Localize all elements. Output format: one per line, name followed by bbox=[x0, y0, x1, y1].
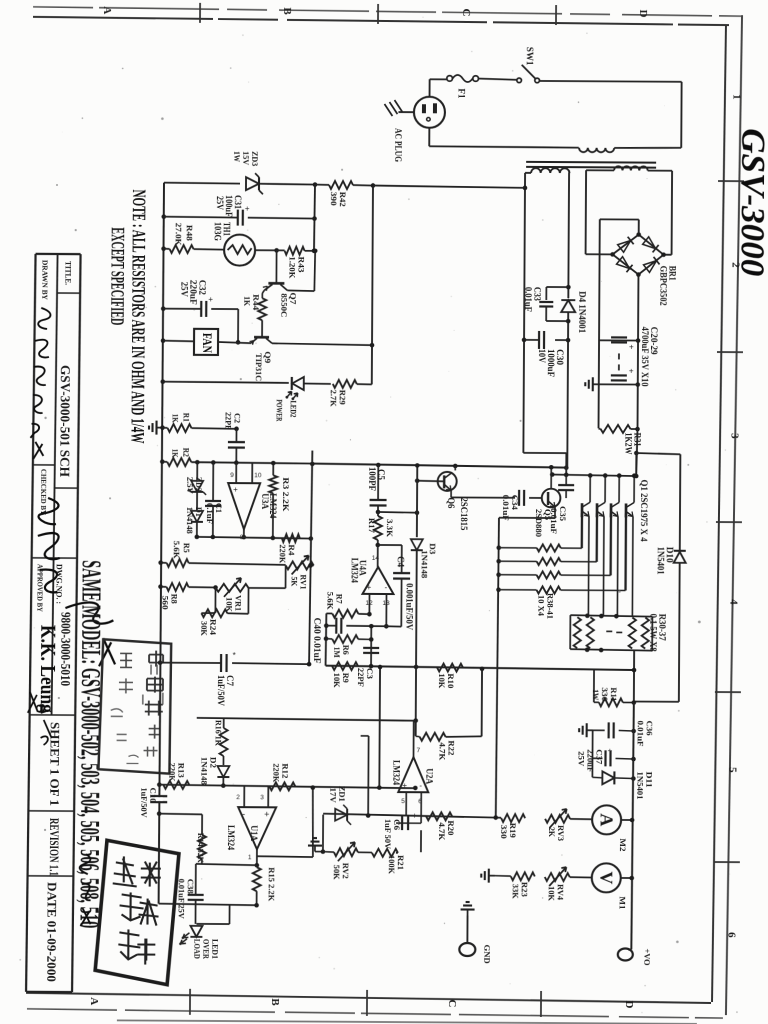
svg-text:1uF/50V: 1uF/50V bbox=[216, 675, 226, 707]
svg-text:17V: 17V bbox=[328, 788, 338, 804]
svg-text:2SC1815: 2SC1815 bbox=[459, 497, 469, 531]
svg-text:A: A bbox=[597, 813, 617, 826]
svg-text:R3 2.2K: R3 2.2K bbox=[281, 477, 291, 512]
svg-text:103G: 103G bbox=[213, 222, 223, 241]
svg-text:0.1uF: 0.1uF bbox=[205, 503, 215, 524]
svg-text:1N5401: 1N5401 bbox=[656, 547, 666, 576]
svg-text:DRAWN BY: DRAWN BY bbox=[40, 260, 49, 301]
svg-text:APPROVED BY: APPROVED BY bbox=[35, 564, 44, 613]
svg-text:B: B bbox=[269, 998, 281, 1006]
svg-text:U1A: U1A bbox=[249, 825, 259, 842]
svg-text:M1: M1 bbox=[618, 896, 628, 909]
svg-text:1M: 1M bbox=[332, 647, 342, 658]
svg-text:2.5V: 2.5V bbox=[185, 477, 195, 495]
svg-text:3: 3 bbox=[260, 794, 264, 801]
svg-text:5.6K: 5.6K bbox=[325, 592, 335, 610]
svg-text:100K: 100K bbox=[387, 855, 397, 874]
svg-text:REVISION 1.1: REVISION 1.1 bbox=[47, 818, 61, 876]
svg-text:2.7K: 2.7K bbox=[329, 390, 339, 407]
svg-text:6: 6 bbox=[725, 932, 737, 938]
svg-text:M2: M2 bbox=[618, 838, 628, 851]
svg-text:LED2: LED2 bbox=[289, 400, 299, 417]
svg-text:NOTE : ALL RESISTORS ARE IN OH: NOTE : ALL RESISTORS ARE IN OHM AND 1/4W bbox=[126, 189, 149, 443]
svg-text:5: 5 bbox=[726, 767, 738, 773]
svg-text:R5: R5 bbox=[182, 543, 192, 553]
svg-text:R16 1K: R16 1K bbox=[214, 720, 224, 746]
svg-text:C: C bbox=[446, 999, 458, 1007]
svg-text:GBPC3502: GBPC3502 bbox=[658, 266, 668, 307]
svg-text:1N4148: 1N4148 bbox=[185, 507, 195, 534]
svg-text:220K: 220K bbox=[167, 763, 177, 782]
svg-text:25V: 25V bbox=[576, 751, 586, 767]
svg-text:3: 3 bbox=[728, 433, 740, 439]
svg-text:EXCEPT SPECIFIED: EXCEPT SPECIFIED bbox=[106, 227, 128, 325]
svg-text:2K: 2K bbox=[547, 827, 557, 837]
svg-text:B: B bbox=[281, 7, 293, 15]
svg-text:R15 2.2K: R15 2.2K bbox=[267, 867, 277, 901]
svg-text:5: 5 bbox=[401, 798, 405, 805]
svg-text:8550C: 8550C bbox=[279, 293, 289, 317]
svg-text:33K: 33K bbox=[511, 884, 521, 899]
svg-text:+: + bbox=[402, 781, 407, 790]
svg-text:1K: 1K bbox=[170, 449, 180, 458]
svg-text:1W: 1W bbox=[232, 151, 242, 162]
svg-text:-: - bbox=[419, 781, 422, 790]
svg-text:CHECKED BY: CHECKED BY bbox=[39, 469, 48, 516]
svg-text:+: + bbox=[245, 204, 250, 213]
svg-text:4.7K: 4.7K bbox=[437, 822, 447, 840]
svg-text:+: + bbox=[608, 746, 613, 755]
svg-text:220K: 220K bbox=[271, 763, 281, 782]
svg-text:1.20K: 1.20K bbox=[287, 256, 297, 278]
svg-text:4: 4 bbox=[727, 599, 739, 605]
svg-text:100PF: 100PF bbox=[367, 467, 377, 492]
svg-text:1: 1 bbox=[248, 854, 252, 861]
svg-text:1N4148: 1N4148 bbox=[420, 550, 430, 578]
svg-text:0.1 5W X8: 0.1 5W X8 bbox=[648, 614, 658, 653]
svg-text:LM324: LM324 bbox=[226, 825, 236, 851]
svg-text:A: A bbox=[101, 6, 113, 14]
svg-text:10 X4: 10 X4 bbox=[536, 595, 546, 617]
svg-text:9: 9 bbox=[230, 472, 234, 479]
svg-text:5K: 5K bbox=[290, 576, 300, 586]
svg-text:1K: 1K bbox=[171, 414, 181, 423]
svg-text:POWER: POWER bbox=[275, 399, 285, 422]
svg-text:22PF: 22PF bbox=[223, 412, 233, 430]
svg-text:D4 1N4001: D4 1N4001 bbox=[576, 291, 586, 333]
svg-text:LM324: LM324 bbox=[391, 760, 401, 786]
svg-text:1N5401: 1N5401 bbox=[635, 772, 645, 800]
svg-text:2: 2 bbox=[236, 794, 240, 801]
svg-text:U2A: U2A bbox=[424, 768, 434, 785]
svg-text:*: * bbox=[233, 651, 236, 660]
svg-text:1: 1 bbox=[731, 94, 743, 100]
svg-text:R17: R17 bbox=[367, 518, 377, 534]
svg-text:25V: 25V bbox=[179, 282, 189, 298]
svg-text:-: - bbox=[385, 583, 388, 592]
svg-text:7: 7 bbox=[417, 747, 421, 754]
svg-text:10V: 10V bbox=[536, 349, 546, 363]
svg-text:10: 10 bbox=[254, 472, 262, 479]
svg-text:+: + bbox=[367, 583, 372, 592]
svg-text:+: + bbox=[208, 295, 213, 304]
svg-text:0.01uF: 0.01uF bbox=[636, 721, 646, 747]
svg-text:C40 0.01uF: C40 0.01uF bbox=[312, 618, 322, 665]
svg-text:A: A bbox=[88, 997, 100, 1005]
svg-text:390: 390 bbox=[329, 192, 339, 206]
svg-text:C4: C4 bbox=[396, 556, 406, 568]
svg-text:V: V bbox=[596, 871, 616, 884]
svg-text:560: 560 bbox=[160, 596, 170, 610]
svg-text:1K: 1K bbox=[242, 296, 252, 306]
svg-text:+: + bbox=[629, 342, 634, 351]
svg-text:R14 82K: R14 82K bbox=[196, 833, 206, 863]
svg-text:1uF 50V: 1uF 50V bbox=[383, 819, 393, 850]
svg-text:4.7K: 4.7K bbox=[437, 742, 447, 760]
svg-text:10K: 10K bbox=[437, 673, 447, 688]
svg-text:5.6K: 5.6K bbox=[172, 541, 182, 559]
svg-text:1K2W: 1K2W bbox=[623, 432, 633, 454]
svg-text:220K: 220K bbox=[278, 544, 288, 563]
svg-text:GND: GND bbox=[482, 945, 492, 964]
svg-text:F1: F1 bbox=[457, 88, 467, 99]
svg-text:R2: R2 bbox=[181, 448, 191, 457]
svg-text:10K: 10K bbox=[332, 673, 342, 688]
svg-text:4700uF 35V X10: 4700uF 35V X10 bbox=[639, 327, 649, 387]
svg-text:AC PLUG: AC PLUG bbox=[392, 128, 402, 163]
svg-text:0.01uF: 0.01uF bbox=[523, 287, 533, 313]
svg-text:DATE 01-09-2000: DATE 01-09-2000 bbox=[44, 882, 59, 982]
svg-text:R48: R48 bbox=[185, 225, 195, 241]
svg-text:TIP31C: TIP31C bbox=[254, 353, 264, 381]
svg-text:0.001uF/50V: 0.001uF/50V bbox=[404, 583, 414, 631]
svg-text:1N4148: 1N4148 bbox=[199, 757, 209, 785]
svg-text:2SD880: 2SD880 bbox=[534, 509, 544, 537]
svg-text:GSV-3000-501 SCH: GSV-3000-501 SCH bbox=[57, 365, 73, 478]
svg-text:LOAD: LOAD bbox=[192, 939, 202, 959]
svg-text:+: + bbox=[412, 811, 417, 820]
svg-text:Q1 2SC1975 X 4: Q1 2SC1975 X 4 bbox=[638, 480, 648, 542]
svg-text:+: + bbox=[264, 809, 269, 819]
svg-text:1uF/50V: 1uF/50V bbox=[139, 788, 149, 819]
svg-text:+VO: +VO bbox=[642, 949, 652, 966]
svg-text:SW1: SW1 bbox=[525, 47, 535, 66]
svg-text:30K: 30K bbox=[199, 621, 209, 636]
svg-text:50K: 50K bbox=[332, 865, 342, 880]
svg-text:FAN: FAN bbox=[200, 333, 215, 354]
svg-text:14: 14 bbox=[372, 555, 380, 562]
svg-text:+: + bbox=[629, 366, 634, 375]
svg-text:R1: R1 bbox=[182, 413, 192, 422]
svg-text:GSV-3000: GSV-3000 bbox=[733, 128, 768, 276]
svg-text:DWG.NO. :: DWG.NO. : bbox=[54, 564, 63, 604]
svg-text:10K: 10K bbox=[547, 886, 557, 901]
svg-text:3.3K: 3.3K bbox=[385, 519, 395, 537]
svg-text:25V: 25V bbox=[215, 196, 225, 211]
svg-text:330: 330 bbox=[499, 825, 509, 839]
svg-text:27.0K: 27.0K bbox=[174, 223, 184, 246]
svg-text:TITLE.: TITLE. bbox=[63, 261, 73, 285]
svg-text:-: - bbox=[242, 809, 245, 819]
svg-text:0.01uF 25V: 0.01uF 25V bbox=[177, 879, 187, 920]
svg-text:K.K. Leung: K.K. Leung bbox=[36, 625, 61, 714]
svg-text:D: D bbox=[623, 1000, 635, 1008]
svg-text:Q6: Q6 bbox=[446, 497, 456, 509]
svg-text:22PF: 22PF bbox=[356, 668, 366, 687]
svg-text:C: C bbox=[460, 8, 472, 16]
svg-text:D: D bbox=[637, 10, 649, 18]
svg-text:1W: 1W bbox=[591, 689, 601, 700]
svg-text:+: + bbox=[233, 485, 238, 494]
svg-text:LM324: LM324 bbox=[350, 558, 360, 584]
